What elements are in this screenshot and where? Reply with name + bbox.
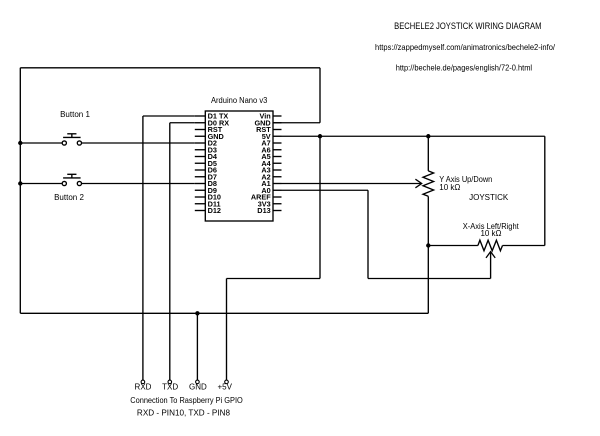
terminal TXD bbox=[168, 380, 172, 384]
terminal GND bbox=[196, 380, 200, 384]
wire down to +5V terminal bbox=[226, 279, 228, 381]
wire GND bottom to GND terminal bbox=[196, 313, 198, 380]
wire D0 RX left bbox=[170, 122, 195, 124]
pin stub left D9 bbox=[195, 189, 206, 191]
svg-text:D13: D13 bbox=[257, 206, 270, 215]
wire down to RXD terminal bbox=[142, 116, 144, 380]
arrow Y pot wiper bbox=[415, 179, 421, 188]
svg-text:+5V: +5V bbox=[217, 383, 232, 392]
terminal RXD bbox=[141, 380, 145, 384]
wire GND right drop to Arduino GND pin bbox=[319, 68, 321, 123]
pin stub left RST bbox=[195, 129, 206, 131]
switch Button 1 bbox=[62, 134, 81, 145]
potentiometer R2 X axis bbox=[478, 240, 503, 251]
pin stub left GND bbox=[195, 135, 206, 137]
pin stub right A3 bbox=[273, 169, 282, 171]
arrow X pot wiper bbox=[486, 252, 495, 258]
pin stub right 3V3 bbox=[273, 203, 282, 205]
pin stub left D3 bbox=[195, 149, 206, 151]
wire 5V rail bbox=[282, 135, 545, 137]
wire button 1 to D2 bbox=[82, 142, 195, 144]
wire GND left bbox=[19, 68, 21, 313]
pin stub right A4 bbox=[273, 162, 282, 164]
wire GND top bbox=[20, 67, 320, 69]
pin stub left D8 bbox=[195, 183, 206, 185]
svg-text:Button 1: Button 1 bbox=[60, 110, 90, 119]
svg-text:10 kΩ: 10 kΩ bbox=[480, 229, 501, 238]
pin stub left D11 bbox=[195, 203, 206, 205]
svg-text:D12: D12 bbox=[208, 206, 221, 215]
svg-text:BECHELE2 JOYSTICK WIRING DIAGR: BECHELE2 JOYSTICK WIRING DIAGRAM bbox=[394, 21, 541, 31]
junction 5V rail at x320 bbox=[318, 134, 322, 138]
svg-text:RXD: RXD bbox=[135, 383, 152, 392]
wire GND bottom bbox=[20, 312, 428, 314]
junction Y pot lead with X pot wire bbox=[426, 243, 430, 247]
pin stub right A2 bbox=[273, 176, 282, 178]
op IC U1 Arduino Nano v3 body bbox=[205, 111, 273, 221]
svg-text:10 kΩ: 10 kΩ bbox=[439, 183, 460, 192]
svg-text:TXD: TXD bbox=[162, 383, 178, 392]
potentiometer R1 Y axis bbox=[423, 171, 434, 196]
pin stub left D4 bbox=[195, 156, 206, 158]
wire button 2 to D8 bbox=[82, 183, 195, 185]
wire GND left to button 2 bbox=[20, 183, 62, 185]
pin stub left D10 bbox=[195, 196, 206, 198]
pin stub right RST bbox=[273, 129, 282, 131]
junction button 1 on GND left bbox=[18, 141, 22, 145]
wire 5V down from rail bbox=[319, 136, 321, 278]
wire GND left to button 1 bbox=[20, 142, 62, 144]
pin stub left D2 bbox=[195, 142, 206, 144]
svg-text:Button 2: Button 2 bbox=[54, 193, 84, 202]
pin stub left D12 bbox=[195, 210, 206, 212]
wire down to TXD terminal bbox=[169, 123, 171, 380]
wire 5V jog left bbox=[227, 278, 321, 280]
junction GND bottom bbox=[195, 311, 199, 315]
svg-text:RXD - PIN10, TXD - PIN8: RXD - PIN10, TXD - PIN8 bbox=[137, 409, 231, 418]
pin stub right A1 bbox=[273, 183, 282, 185]
wire X pot wiper up bbox=[490, 252, 492, 278]
wire A1 to Y pot wiper bbox=[282, 183, 422, 185]
pin stub left D0 RX bbox=[195, 122, 206, 124]
pin stub right AREF bbox=[273, 196, 282, 198]
pin stub left D1 TX bbox=[195, 115, 206, 117]
pin stub right A6 bbox=[273, 149, 282, 151]
wire Arduino GND pin to GND loop bbox=[273, 122, 320, 124]
pin stub right Vin bbox=[273, 115, 282, 117]
wire Y pot bottom lead to GND bottom bbox=[427, 196, 429, 313]
pin stub right 5V bbox=[273, 135, 282, 137]
svg-text:GND: GND bbox=[189, 383, 207, 392]
pin stub right GND bbox=[273, 122, 282, 124]
svg-text:https://zappedmyself.com/anima: https://zappedmyself.com/animatronics/be… bbox=[375, 42, 556, 52]
pin stub right D13 bbox=[273, 210, 282, 212]
pin stub left D5 bbox=[195, 162, 206, 164]
svg-text:Connection To Raspberry Pi GPI: Connection To Raspberry Pi GPIO bbox=[130, 396, 243, 405]
pin stub left D6 bbox=[195, 169, 206, 171]
wire A0 to X wiper bottom bbox=[368, 278, 491, 280]
switch Button 2 bbox=[62, 174, 81, 185]
svg-text:Arduino Nano v3: Arduino Nano v3 bbox=[211, 96, 268, 105]
svg-text:http://bechele.de/pages/englis: http://bechele.de/pages/english/72-0.htm… bbox=[396, 62, 532, 72]
pin stub right A0 bbox=[273, 189, 282, 191]
wire A0 down bbox=[367, 190, 369, 278]
pin stub right A7 bbox=[273, 142, 282, 144]
junction button 2 on GND left bbox=[18, 181, 22, 185]
wire X pot right lead bbox=[503, 245, 545, 247]
wire A0 right bbox=[282, 189, 369, 191]
pin stub left D7 bbox=[195, 176, 206, 178]
junction Y pot top on 5V rail bbox=[426, 134, 430, 138]
wire D1 TX left bbox=[143, 115, 195, 117]
wire 5V rail right drop bbox=[544, 136, 546, 245]
wire Y pot top lead bbox=[427, 136, 429, 171]
wire X pot left lead bbox=[428, 245, 478, 247]
terminal +5V bbox=[225, 380, 229, 384]
pin stub right A5 bbox=[273, 156, 282, 158]
svg-text:JOYSTICK: JOYSTICK bbox=[469, 193, 509, 202]
